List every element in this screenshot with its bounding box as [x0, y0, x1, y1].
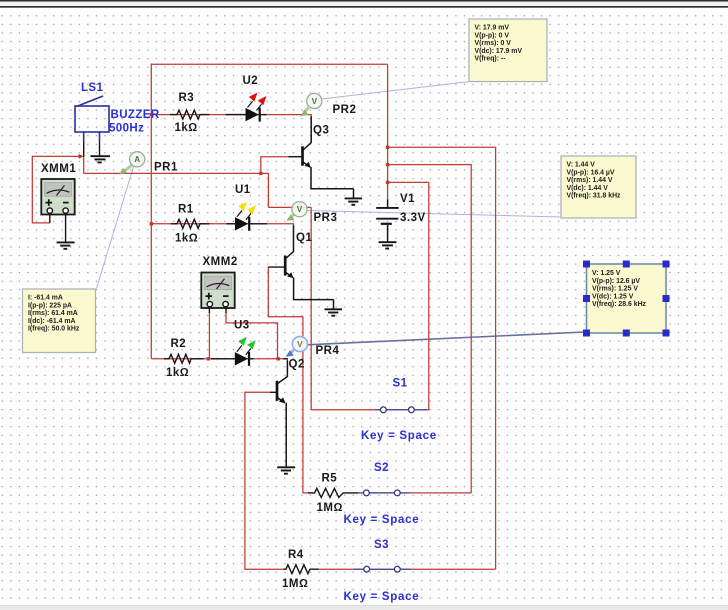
svg-text:Q2: Q2 [289, 358, 305, 370]
wire PR3 row horizontal y=207.4 [268, 206, 311, 208]
wire row R3 to LED U2 to Q3 collector corner [151, 115, 311, 117]
svg-text:U2: U2 [243, 75, 259, 87]
svg-text:R1: R1 [178, 204, 194, 216]
probe PR3 (voltage probe V) [286, 202, 307, 221]
callout line from probe PR4 to measurement box [307, 332, 585, 345]
LED U2 [226, 93, 267, 122]
selection handles of PR4 box [583, 261, 670, 337]
wire XMM1 plus terminal to buzzer pin [32, 155, 79, 157]
wire row R2 to LED U3 to Q2 collector corner [151, 359, 287, 361]
wire XMM2 plus terminal down to R2 row junction [208, 312, 210, 359]
svg-text:V(p-p): 0 V: V(p-p): 0 V [475, 32, 510, 39]
svg-text:1kΩ: 1kΩ [175, 122, 198, 134]
svg-text:LS1: LS1 [81, 82, 103, 94]
svg-text:3.3V: 3.3V [400, 212, 426, 224]
wire battery bus vertical x=387.6 [387, 64, 389, 200]
svg-text:V1: V1 [400, 193, 415, 205]
svg-text:Key = Space: Key = Space [344, 514, 420, 526]
transistor Q2 [270, 359, 287, 467]
svg-text:V(rms): 0 V: V(rms): 0 V [475, 40, 512, 47]
svg-text:R5: R5 [322, 473, 338, 485]
svg-text:1kΩ: 1kΩ [166, 367, 189, 379]
probe PR2 (voltage probe V) [301, 93, 322, 116]
svg-text:V: 1.44 V: V: 1.44 V [567, 162, 596, 169]
multimeter XMM1 [41, 179, 74, 242]
wire bus junction to S2 riser [388, 165, 472, 493]
switch S1 [375, 409, 428, 411]
svg-text:I(dc): -61.4 mA: I(dc): -61.4 mA [28, 318, 76, 325]
svg-text:V(rms): 1.25 V: V(rms): 1.25 V [592, 286, 638, 293]
wire XMM2 minus terminal to U3 cathode junction [226, 312, 278, 359]
junction dots [150, 113, 390, 361]
ground below Q3 emitter [345, 198, 362, 204]
probe PR1 (current probe A) [119, 152, 145, 175]
svg-text:1kΩ: 1kΩ [175, 233, 198, 245]
wire Q2 base jog down to R4/S3 row [245, 392, 284, 569]
svg-text:1MΩ: 1MΩ [282, 578, 308, 590]
wire Q3 base riser x=260.8 [261, 157, 289, 174]
svg-text:Q3: Q3 [313, 125, 329, 137]
svg-text:V(p-p): 12.6 µV: V(p-p): 12.6 µV [592, 278, 640, 285]
svg-text:V(freq): 28.6 kHz: V(freq): 28.6 kHz [592, 301, 647, 308]
callout line from probe PR3 to measurement box [307, 211, 563, 218]
svg-text:Key = Space: Key = Space [361, 430, 437, 442]
svg-text:I(rms): 61.4 mA: I(rms): 61.4 mA [28, 310, 78, 317]
wire row R1 to LED U1 to Q1 collector corner [151, 224, 293, 226]
svg-text:R4: R4 [288, 549, 304, 561]
resistor R2 [164, 354, 204, 363]
callout line from probe PR2 to measurement box [322, 82, 471, 100]
svg-text:S2: S2 [374, 462, 389, 474]
svg-text:PR1: PR1 [154, 162, 178, 174]
svg-text:V(freq): --: V(freq): -- [475, 56, 507, 63]
switch S3 [353, 568, 410, 570]
svg-text:BUZZER: BUZZER [111, 109, 160, 121]
svg-text:U3: U3 [234, 320, 250, 332]
wire jog PR1 net to PR3 row [261, 173, 269, 207]
component labels (black) [41, 75, 426, 590]
svg-text:XMM2: XMM2 [203, 256, 238, 268]
svg-text:V: V [297, 205, 303, 214]
resistor R5 [308, 488, 358, 497]
buzzer LS1 body [75, 96, 109, 142]
ground below Q2 emitter [277, 467, 295, 473]
battery V1 [376, 200, 399, 243]
wire XMM1 left vertical [32, 156, 50, 223]
svg-text:XMM1: XMM1 [41, 163, 76, 175]
svg-text:PR3: PR3 [314, 212, 338, 224]
ground below XMM1 [57, 242, 75, 248]
wire PR1 net horizontal y=173.4 [84, 172, 261, 174]
wire vertical x=311.2 PR3 net down to S1 [310, 207, 312, 409]
wire S1 right riser to bus junction [428, 182, 429, 409]
svg-text:1MΩ: 1MΩ [317, 502, 343, 514]
probe PR4 (voltage probe V, selected blue) [286, 336, 308, 356]
svg-text:U1: U1 [235, 184, 251, 196]
svg-text:I(p-p): 225 pA: I(p-p): 225 pA [28, 302, 72, 309]
svg-text:V: 17.9 mV: V: 17.9 mV [475, 25, 510, 32]
ground below buzzer [91, 156, 111, 162]
black lead R2 to LED U3 [211, 358, 235, 360]
measurement box for PR1 [23, 289, 96, 353]
red arrow where XMM1 wire joins buzzer pin [79, 154, 84, 159]
resistor R3 [170, 110, 209, 119]
svg-text:V: V [297, 340, 303, 349]
measurement box for PR4 (selected) [583, 261, 670, 337]
svg-text:R3: R3 [179, 92, 195, 104]
svg-text:V(freq): 31.8 kHz: V(freq): 31.8 kHz [567, 193, 622, 200]
multimeter XMM2 [201, 273, 234, 314]
transistor Q3 [289, 116, 354, 198]
window bottom edge band [0, 605, 728, 610]
wire S1 row left segment [311, 409, 375, 411]
svg-text:V: V [312, 97, 318, 106]
wire S3 row right segment [411, 568, 496, 570]
LED U3 [235, 337, 256, 366]
svg-text:S3: S3 [374, 539, 389, 551]
svg-text:I: -61.4 mA: I: -61.4 mA [28, 295, 63, 302]
wire S2 row right segment [410, 492, 472, 494]
svg-text:S1: S1 [393, 378, 408, 390]
svg-text:V(p-p): 16.4 µV: V(p-p): 16.4 µV [567, 169, 615, 176]
svg-text:I(freq): 50.0 kHz: I(freq): 50.0 kHz [28, 326, 80, 333]
switch S2 [358, 492, 410, 494]
ground below battery V1 [379, 242, 397, 248]
resistor R1 [171, 219, 209, 228]
LED U1 [227, 202, 268, 231]
wire buzzer pin down to PR1 net [83, 158, 85, 174]
wire S3 row middle segment [318, 568, 353, 570]
wire left vertical bus x=151 [150, 64, 152, 359]
svg-text:V(rms): 1.44 V: V(rms): 1.44 V [567, 177, 613, 184]
resistor R4 [284, 565, 319, 574]
svg-text:V(dc): 1.44 V: V(dc): 1.44 V [567, 185, 609, 192]
measurement box for PR3 [561, 156, 636, 218]
svg-text:Key = Space: Key = Space [344, 591, 420, 603]
svg-text:A: A [134, 155, 140, 164]
callout line from probe PR1 to measurement box [97, 167, 134, 289]
wire Q1 base jog down to R5/S2 row [268, 267, 313, 493]
wire bus junction to S3 riser [388, 147, 496, 569]
wire bus junction to S1 riser [388, 181, 429, 183]
svg-text:500Hz: 500Hz [109, 123, 144, 135]
svg-text:Q1: Q1 [296, 232, 312, 244]
buzzer pin leads [84, 142, 100, 158]
svg-text:V(dc): 17.9 mV: V(dc): 17.9 mV [475, 48, 523, 55]
component labels (blue) [81, 82, 437, 603]
svg-text:PR4: PR4 [316, 345, 340, 357]
wire top rail from left loop to battery bus [151, 63, 387, 65]
svg-text:V(dc): 1.25 V: V(dc): 1.25 V [592, 293, 634, 300]
ground below Q1 emitter [325, 309, 343, 315]
window top edge bar [0, 0, 728, 8]
transistor Q1 [268, 225, 333, 309]
svg-text:V: 1.25 V: V: 1.25 V [592, 270, 621, 277]
measurement box for PR2 [469, 19, 547, 82]
svg-text:R2: R2 [171, 338, 187, 350]
svg-text:PR2: PR2 [333, 104, 357, 116]
